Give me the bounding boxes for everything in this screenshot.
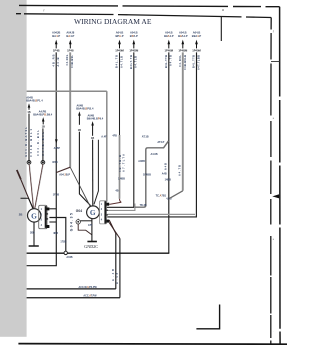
svg-text:C4.R9L: C4.R9L xyxy=(65,54,69,65)
wire F thick gray vertical xyxy=(182,52,184,190)
svg-text:B9A4B.BP9.4: B9A4B.BP9.4 xyxy=(87,116,104,120)
svg-text:TC.A7B1: TC.A7B1 xyxy=(156,194,167,197)
svg-text:1P48: 1P48 xyxy=(67,49,74,53)
grommet link to ground drop xyxy=(80,220,92,222)
ground bar GND2C xyxy=(87,241,97,243)
svg-text:1B: 1B xyxy=(42,126,45,129)
pin 3 stub merging wire A xyxy=(49,221,56,223)
feed arrow C xyxy=(118,40,121,45)
svg-text:1P4DM: 1P4DM xyxy=(129,49,139,53)
svg-text:A.4F: A.4F xyxy=(101,136,107,139)
svg-text:BA4.P: BA4.P xyxy=(52,34,60,38)
border bottom line xyxy=(18,343,287,346)
wire F diagonal merging into wire E xyxy=(169,191,183,199)
feed arrow E xyxy=(167,40,170,45)
junction open circle on rail xyxy=(64,251,67,254)
svg-text:17B: 17B xyxy=(88,225,93,227)
pin 1 stub to wire A xyxy=(49,208,56,210)
svg-text:B4L.TTB: B4L.TTB xyxy=(164,55,168,68)
connector X2 pin tabs xyxy=(106,203,109,206)
svg-text:B9A4.P: B9A4.P xyxy=(178,34,188,38)
ground eyelet G115 circle xyxy=(28,209,41,222)
ground drop under G04 xyxy=(91,219,93,242)
scanner gray band xyxy=(0,0,27,337)
svg-text:A04B: A04B xyxy=(66,256,72,259)
svg-text:C04.R.B9L: C04.R.B9L xyxy=(36,130,40,156)
border inner right vertical xyxy=(270,18,272,344)
svg-text:3DB: 3DB xyxy=(53,232,58,235)
connector X1 pin numbers xyxy=(41,208,43,227)
svg-text:1.4BB: 1.4BB xyxy=(118,178,125,181)
wire A vertical with left turn at bottom xyxy=(27,52,57,265)
feed arrow G top labels xyxy=(192,31,202,38)
svg-text:ACC.W.GPS.PW: ACC.W.GPS.PW xyxy=(79,286,98,289)
drop bus 2 horizontal at 298 xyxy=(27,297,120,299)
svg-text:4B.TB.B: 4B.TB.B xyxy=(118,155,122,172)
wire H1 splice diagonal into left ground xyxy=(29,164,33,208)
svg-text:A4.TB: A4.TB xyxy=(169,55,173,66)
wire H2 splice diagonal into left ground xyxy=(35,164,43,208)
svg-text:BPA.P: BPA.P xyxy=(130,34,138,38)
feed arrow A top labels xyxy=(52,31,60,38)
connector X2 pin numbers xyxy=(101,203,103,221)
svg-text:G: G xyxy=(90,208,96,217)
svg-text:A7.TLTA: A7.TLTA xyxy=(122,154,126,172)
svg-text:B9A4.P: B9A4.P xyxy=(164,34,174,38)
svg-text:3DB: 3DB xyxy=(30,232,35,235)
feed arrow C top labels xyxy=(115,31,123,38)
svg-text:1F.4B: 1F.4B xyxy=(53,194,60,197)
splice bullet S1 xyxy=(27,161,31,165)
svg-text:A4T.TLBB: A4T.TLBB xyxy=(196,55,200,70)
ground eyelet G04 circle xyxy=(87,206,100,219)
svg-text:A4B: A4B xyxy=(165,163,168,170)
top-right zone divider line xyxy=(220,16,222,41)
ground bar G115 xyxy=(29,245,39,247)
feed drop into G04 at 98.4 xyxy=(94,140,98,205)
svg-text:A4BP: A4BP xyxy=(54,147,61,150)
grommet lower stub xyxy=(78,224,92,235)
svg-text:1F4BB: 1F4BB xyxy=(143,174,151,177)
border outer top xyxy=(19,5,280,6)
svg-text:C4.R9L: C4.R9L xyxy=(178,55,182,67)
wire C bottom curve and diagonal into G04 pin 1 xyxy=(109,199,121,205)
ground stub under G115 xyxy=(33,222,35,246)
svg-text:BPA.P: BPA.P xyxy=(115,34,123,38)
feed arrow H4 xyxy=(91,121,94,125)
wire B split diagonal toward G04 xyxy=(70,167,90,206)
svg-text:W4B: W4B xyxy=(52,161,58,164)
wire C lower gray section xyxy=(119,135,121,199)
svg-text:WIRING DIAGRAM AE: WIRING DIAGRAM AE xyxy=(74,17,152,26)
pin diagonal wire to drop bus 2 xyxy=(109,223,120,239)
svg-text:C4B.B9LB: C4B.B9LB xyxy=(183,55,187,70)
wire C upper (black) xyxy=(119,52,121,136)
svg-text:C04B.B9L1: C04B.B9L1 xyxy=(29,128,33,157)
svg-text:A4.B: A4.B xyxy=(56,57,60,66)
svg-text:2B: 2B xyxy=(19,212,23,216)
box G115 top edge xyxy=(27,90,107,92)
splice bullet S2 xyxy=(41,161,45,165)
connector X1 dark bar xyxy=(45,206,47,228)
box G115 right edge xyxy=(106,91,108,201)
connector X1 body xyxy=(39,205,47,228)
svg-text:a: a xyxy=(222,8,224,12)
svg-text:1P40M: 1P40M xyxy=(165,49,174,53)
svg-text:A4.TB: A4.TB xyxy=(178,165,182,176)
svg-text:AT.1B: AT.1B xyxy=(142,135,149,138)
pin diagonal wire to drop bus 1 xyxy=(109,220,116,234)
connector X2 body xyxy=(100,201,107,224)
svg-text:17SB: 17SB xyxy=(60,241,66,244)
border inner top xyxy=(16,14,271,18)
svg-text:GND2C: GND2C xyxy=(84,244,98,249)
wire G vertical, left turn into connector xyxy=(107,52,196,217)
wire H2 vertical down to bullet xyxy=(42,128,44,160)
wire D vertical, left turn into connector xyxy=(106,52,133,207)
wire B thick gray vertical xyxy=(69,52,71,167)
grommet symbol near G04 xyxy=(76,220,80,224)
stray feed diagonal from band xyxy=(17,170,33,209)
svg-text:A04.3B.P: A04.3B.P xyxy=(59,173,70,176)
svg-text:B9A4B.BP.B.4: B9A4B.BP.B.4 xyxy=(76,107,94,111)
feed arrow H1 xyxy=(28,103,31,107)
svg-text:B9A4.P: B9A4.P xyxy=(192,34,202,38)
connector X1 pin tabs xyxy=(47,208,50,211)
bottom-right L corner mark xyxy=(196,305,219,329)
svg-text:C4B.B9L: C4B.B9L xyxy=(70,55,74,68)
svg-text:G04: G04 xyxy=(76,209,82,213)
connector X2 dark bar xyxy=(104,201,106,223)
wire D gray shadow corner xyxy=(106,204,134,211)
svg-text:A4BB: A4BB xyxy=(138,160,145,163)
border zone arrow xyxy=(272,194,279,198)
wire H1 vertical down to bullet xyxy=(28,114,30,161)
L feed wire on band xyxy=(21,198,34,209)
svg-text:B9A4B.BP1.4: B9A4B.BP1.4 xyxy=(26,99,43,103)
svg-text:4B: 4B xyxy=(115,189,118,192)
svg-text:A4.TLB: A4.TLB xyxy=(119,56,123,68)
svg-text:A.48: A.48 xyxy=(116,272,119,284)
svg-text:4FB: 4FB xyxy=(112,134,117,137)
svg-text:TB.4B: TB.4B xyxy=(140,204,147,207)
feed arrow G xyxy=(195,40,198,45)
svg-text:B4L.TTB: B4L.TTB xyxy=(192,55,196,68)
svg-text:A4B: A4B xyxy=(162,172,167,175)
pin 2 wire right-down to rail junction xyxy=(49,218,65,252)
border tick between verticals xyxy=(271,61,280,63)
wire E long vertical to bottom rail corner xyxy=(168,52,170,253)
drop bus 1 horizontal at 289 xyxy=(27,288,116,290)
feed arrow B xyxy=(69,40,72,45)
svg-text:B4L.TB: B4L.TB xyxy=(115,55,119,68)
svg-text:AT4.P: AT4.P xyxy=(157,141,164,144)
feed arrow H3 xyxy=(78,111,81,115)
feed arrow H2 xyxy=(42,117,45,121)
svg-text:A4.TLB: A4.TLB xyxy=(134,56,138,68)
svg-text:1P4B: 1P4B xyxy=(53,49,60,53)
svg-text:14BB: 14BB xyxy=(165,178,172,181)
feed arrow E top labels xyxy=(164,31,174,38)
feed arrow F top labels xyxy=(178,31,188,38)
wire B bend diagonal toward left ground xyxy=(56,167,70,172)
svg-text:B4LT.TB: B4LT.TB xyxy=(129,55,133,69)
wire H3 vertical then diagonal into G04 xyxy=(79,132,90,206)
svg-text:1P40M: 1P40M xyxy=(192,49,201,53)
wire H4 vertical straight into G04 top xyxy=(92,140,94,206)
feed arrow A xyxy=(55,40,58,45)
feed arrow F xyxy=(181,40,184,45)
feed arrow B top labels xyxy=(66,31,74,38)
feed arrow D top labels xyxy=(130,31,138,38)
svg-text:1P4BM: 1P4BM xyxy=(178,49,188,53)
main rail wire at 253 xyxy=(27,252,170,254)
svg-text:G: G xyxy=(31,211,37,220)
svg-text:B9A4B.PB.B9.4: B9A4B.PB.B9.4 xyxy=(33,113,53,117)
feed arrow D xyxy=(132,40,135,45)
svg-text:ACC.AT.PW: ACC.AT.PW xyxy=(83,295,97,298)
svg-text:1B: 1B xyxy=(91,137,94,140)
wire A inline direction arrow xyxy=(55,139,58,143)
svg-text:1B: 1B xyxy=(27,111,30,114)
wire E branch: jog, horizontal, then gray drop at 145.8 xyxy=(135,141,169,207)
svg-text:BA4.P: BA4.P xyxy=(66,34,74,38)
svg-text:A4.0B: A4.0B xyxy=(151,153,158,156)
border outer right vertical xyxy=(279,7,282,344)
svg-text:1B: 1B xyxy=(78,129,81,132)
svg-text:4B.RB: 4B.RB xyxy=(51,54,55,66)
wire G gray companion horizontal xyxy=(107,213,195,215)
svg-text:1P40M: 1P40M xyxy=(115,49,124,53)
